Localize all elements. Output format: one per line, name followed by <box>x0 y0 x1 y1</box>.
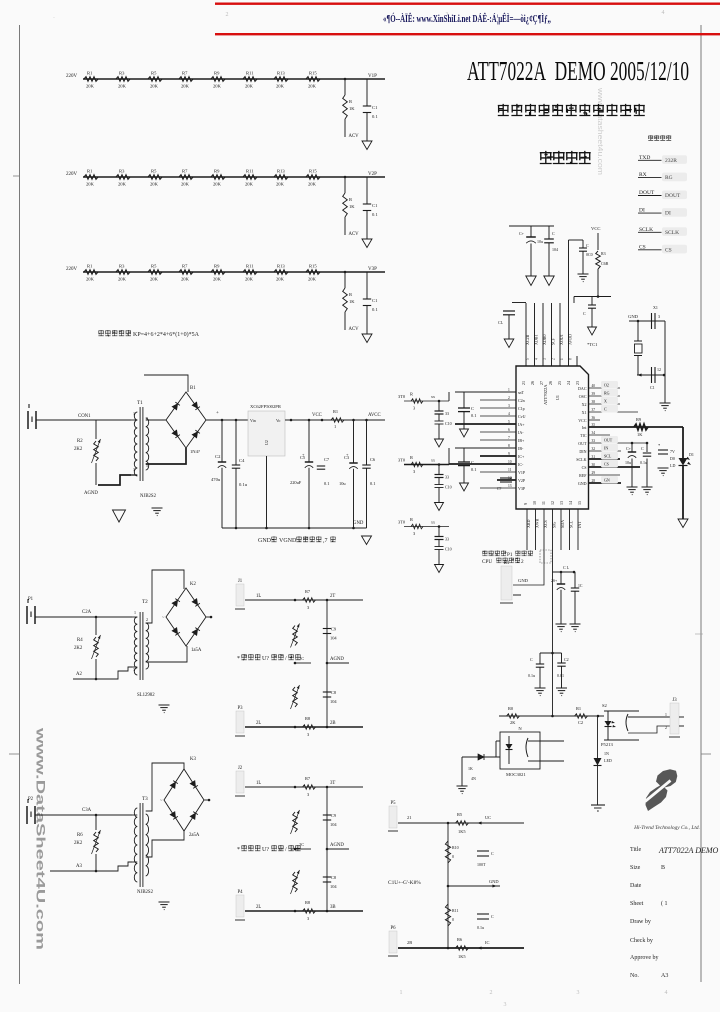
svg-text:3T0: 3T0 <box>398 520 406 525</box>
svg-text:0.1: 0.1 <box>324 481 330 486</box>
svg-text:ACV: ACV <box>349 134 360 139</box>
svg-text:7V: 7V <box>670 449 675 454</box>
svg-text:36: 36 <box>592 416 596 420</box>
svg-text:SCL: SCL <box>604 454 612 459</box>
svg-text:GND: GND <box>489 879 499 884</box>
svg-text:5: 5 <box>526 358 530 360</box>
svg-text:232R: 232R <box>665 158 677 164</box>
svg-text:C10: C10 <box>445 547 452 552</box>
svg-text:37: 37 <box>592 408 596 412</box>
svg-text:«¶Ó--ÀÏÊ: www.XinShiLi.net DÁÊ: «¶Ó--ÀÏÊ: www.XinShiLi.net DÁÊ-:Á¦µÊÌ=—ò… <box>383 12 551 25</box>
svg-text:R3: R3 <box>601 251 606 256</box>
svg-text:2a5A: 2a5A <box>189 833 200 838</box>
svg-text:C: C <box>471 460 474 465</box>
svg-text:R5: R5 <box>151 71 157 76</box>
svg-text:R5: R5 <box>151 169 157 174</box>
svg-text:K2: K2 <box>190 582 196 587</box>
svg-text:1N: 1N <box>604 751 609 756</box>
svg-text:0.1: 0.1 <box>471 413 477 418</box>
svg-text:20K: 20K <box>118 84 127 89</box>
svg-text:20K: 20K <box>181 84 190 89</box>
svg-text:20K: 20K <box>213 84 222 89</box>
svg-text:OUT: OUT <box>604 438 613 443</box>
svg-text:Title: Title <box>630 847 641 853</box>
svg-text:IA+: IA+ <box>518 422 525 427</box>
svg-text:C10: C10 <box>445 485 452 490</box>
svg-text:Date: Date <box>630 883 642 889</box>
svg-text:R11: R11 <box>452 908 459 913</box>
svg-text:C2: C2 <box>578 720 583 725</box>
svg-text:R13: R13 <box>277 169 285 174</box>
svg-text:RG: RG <box>665 175 673 181</box>
svg-text:R9: R9 <box>214 71 220 76</box>
svg-text:IC-: IC- <box>518 462 524 467</box>
svg-text:20K: 20K <box>86 84 95 89</box>
svg-text:3: 3 <box>133 467 135 472</box>
svg-text:3: 3 <box>658 314 660 319</box>
svg-text:32: 32 <box>592 447 596 451</box>
svg-text:C4: C4 <box>239 458 245 463</box>
svg-text:D1: D1 <box>689 452 694 457</box>
svg-text:Approve by: Approve by <box>630 955 659 961</box>
svg-text:3: 3 <box>577 990 580 996</box>
svg-text:4N: 4N <box>471 776 476 781</box>
svg-text:xx: xx <box>431 458 435 463</box>
svg-text:SCLK: SCLK <box>665 230 679 236</box>
svg-text:C7: C7 <box>324 457 330 462</box>
svg-text:26: 26 <box>530 381 535 385</box>
svg-text:P1: P1 <box>28 597 34 602</box>
svg-text:IC+: IC+ <box>518 454 525 459</box>
svg-text:2: 2 <box>508 396 510 400</box>
svg-text:0.1: 0.1 <box>372 114 378 119</box>
svg-text:20K: 20K <box>245 182 254 187</box>
svg-text:23: 23 <box>575 381 580 385</box>
svg-text:J2: J2 <box>238 766 243 771</box>
svg-text:X: X <box>604 399 607 404</box>
svg-text:21: 21 <box>521 381 526 385</box>
svg-text:C1p: C1p <box>518 406 525 411</box>
svg-text:C2n: C2n <box>518 398 525 403</box>
svg-text:R10: R10 <box>452 845 459 850</box>
svg-text:O2: O2 <box>604 383 609 388</box>
svg-text:C2: C2 <box>215 454 221 459</box>
svg-text:SCLK: SCLK <box>576 457 586 462</box>
svg-text:0.1u: 0.1u <box>528 673 535 678</box>
svg-text:AVDD: AVDD <box>568 334 573 345</box>
svg-text:1K: 1K <box>468 766 473 771</box>
svg-text:xx: xx <box>431 520 435 525</box>
svg-text:REF: REF <box>579 473 587 478</box>
svg-text:1: 1 <box>560 358 564 360</box>
svg-text:R5: R5 <box>151 264 157 269</box>
svg-text:No.: No. <box>630 973 639 979</box>
svg-text:C8: C8 <box>331 875 337 880</box>
svg-text:3: 3 <box>508 404 510 408</box>
svg-text:xx: xx <box>431 394 435 399</box>
svg-text:TXD: TXD <box>639 155 650 161</box>
svg-text:2S+: 2S+ <box>551 579 557 583</box>
svg-text:SIG: SIG <box>551 521 556 528</box>
svg-text:ACV: ACV <box>349 232 360 237</box>
svg-text:OUT: OUT <box>578 441 587 446</box>
svg-text:C10: C10 <box>445 421 452 426</box>
svg-text:V1P: V1P <box>518 470 526 475</box>
svg-text:XRD: XRD <box>526 519 531 528</box>
svg-text:C: C <box>491 914 494 919</box>
svg-text:A2: A2 <box>76 672 82 677</box>
svg-text:DOUT: DOUT <box>665 193 681 199</box>
svg-text:R7: R7 <box>182 71 188 76</box>
svg-text:1K5: 1K5 <box>458 829 466 834</box>
svg-text:XC2B: XC2B <box>525 334 530 345</box>
svg-text:0.1u: 0.1u <box>640 460 647 465</box>
svg-text:R1: R1 <box>87 71 93 76</box>
svg-text:V2P: V2P <box>518 478 526 483</box>
svg-text:C?: C? <box>497 486 502 491</box>
svg-text:C1U+-G'-K8%: C1U+-G'-K8% <box>388 880 421 886</box>
svg-text:6: 6 <box>508 428 510 432</box>
svg-text:20K: 20K <box>118 277 127 282</box>
svg-text:20K: 20K <box>276 277 285 282</box>
svg-text:3: 3 <box>133 667 135 672</box>
svg-text:C: C <box>552 231 555 236</box>
svg-text:XC62FP5002PR: XC62FP5002PR <box>250 404 282 409</box>
svg-text:U1: U1 <box>555 395 560 400</box>
svg-text:P2: P2 <box>28 797 34 802</box>
svg-text:9: 9 <box>523 503 528 505</box>
svg-text:GND: GND <box>518 578 529 583</box>
svg-text:39: 39 <box>592 392 596 396</box>
svg-text:20K: 20K <box>308 182 317 187</box>
svg-text:R3: R3 <box>119 169 125 174</box>
svg-text:4: 4 <box>535 358 539 360</box>
svg-text:4: 4 <box>508 412 510 416</box>
svg-text:C6B: C6B <box>601 261 609 266</box>
svg-text:C: C <box>491 851 494 856</box>
svg-text:snT: snT <box>518 390 525 395</box>
svg-text:0.1: 0.1 <box>370 481 376 486</box>
svg-text:2: 2 <box>226 12 229 18</box>
svg-text:VGND: VGND <box>279 538 297 544</box>
svg-text:0: 0 <box>452 917 454 922</box>
svg-text:R: R <box>410 392 413 397</box>
svg-text:20K: 20K <box>276 84 285 89</box>
svg-text:CS: CS <box>639 244 646 250</box>
svg-text:12: 12 <box>657 367 661 372</box>
svg-text:220uF: 220uF <box>290 480 302 485</box>
svg-text:104: 104 <box>552 247 558 252</box>
svg-text:P3: P3 <box>237 706 243 711</box>
svg-text:C6: C6 <box>370 457 376 462</box>
svg-text:P4: P4 <box>237 890 243 895</box>
svg-text:C+: C+ <box>519 231 525 236</box>
svg-text:NJB2S2: NJB2S2 <box>140 494 157 499</box>
svg-text:GND: GND <box>353 521 364 526</box>
svg-text:V2P: V2P <box>368 172 377 177</box>
svg-text:C+: C+ <box>626 446 632 451</box>
svg-text:1: 1 <box>665 713 667 717</box>
svg-text:20K: 20K <box>276 182 285 187</box>
svg-text:*TC1: *TC1 <box>587 342 598 347</box>
svg-text:1C: 1C <box>578 584 583 588</box>
svg-text:20K: 20K <box>181 277 190 282</box>
svg-text:C: C <box>471 406 474 411</box>
svg-text:GND: GND <box>628 314 639 319</box>
svg-text:220V: 220V <box>66 74 78 79</box>
svg-text:C: C <box>583 311 586 316</box>
svg-text:3T: 3T <box>330 781 335 786</box>
svg-text:S2: S2 <box>602 703 608 708</box>
svg-text:C8: C8 <box>331 690 337 695</box>
svg-text:J3: J3 <box>672 698 677 703</box>
svg-text:VCC: VCC <box>591 226 600 231</box>
svg-text:VCC: VCC <box>312 413 322 418</box>
svg-text:2B: 2B <box>330 721 336 726</box>
svg-text:0.1u: 0.1u <box>239 482 248 487</box>
svg-text:2: 2 <box>146 617 148 622</box>
svg-text:14: 14 <box>568 501 573 505</box>
svg-text:IB+: IB+ <box>518 438 525 443</box>
svg-text:DOUT: DOUT <box>639 190 655 196</box>
svg-text:T2: T2 <box>142 599 148 605</box>
svg-text:10: 10 <box>532 501 537 505</box>
svg-text:12: 12 <box>550 501 555 505</box>
svg-text:33: 33 <box>445 537 449 542</box>
svg-text:K3: K3 <box>190 757 196 762</box>
svg-text:0.1: 0.1 <box>471 467 477 472</box>
svg-text:20K: 20K <box>181 182 190 187</box>
svg-text:IC: IC <box>485 940 489 945</box>
svg-text:RX: RX <box>639 172 647 178</box>
svg-text:13: 13 <box>559 501 564 505</box>
svg-text:DIN: DIN <box>579 449 586 454</box>
svg-text:Hi-Trend Technology Co., Ltd.: Hi-Trend Technology Co., Ltd. <box>633 825 700 831</box>
svg-text:DAC: DAC <box>578 386 587 391</box>
svg-text:33: 33 <box>445 411 449 416</box>
svg-text:4: 4 <box>665 990 668 996</box>
svg-text:UC: UC <box>485 815 491 820</box>
svg-text:20K: 20K <box>245 84 254 89</box>
svg-text:R1: R1 <box>576 706 581 711</box>
svg-text:B1: B1 <box>504 561 510 566</box>
svg-text:100T: 100T <box>477 862 486 867</box>
svg-text:38: 38 <box>592 400 596 404</box>
svg-text:0C0: 0C0 <box>586 252 593 257</box>
svg-text:C1: C1 <box>372 105 378 110</box>
svg-text:IA-: IA- <box>518 430 524 435</box>
svg-text:CvU: CvU <box>518 414 526 419</box>
svg-text:35: 35 <box>592 423 596 427</box>
svg-text:8: 8 <box>569 358 573 360</box>
svg-text:R13: R13 <box>277 71 285 76</box>
svg-text:31: 31 <box>592 455 596 459</box>
svg-text:U?: U? <box>262 656 269 662</box>
svg-text:104: 104 <box>330 699 337 704</box>
svg-text:SDA: SDA <box>560 520 565 528</box>
svg-text:R11: R11 <box>246 71 254 76</box>
svg-text:20K: 20K <box>308 84 317 89</box>
svg-text:U?: U? <box>262 847 269 853</box>
svg-text:R5: R5 <box>457 812 463 817</box>
svg-text:C2: C2 <box>564 657 569 662</box>
svg-text:3B: 3B <box>330 905 336 910</box>
svg-text:104: 104 <box>330 884 337 889</box>
svg-text:R9: R9 <box>214 264 220 269</box>
svg-text:4: 4 <box>662 10 665 16</box>
svg-text:0.1u: 0.1u <box>477 925 484 930</box>
svg-text:20K: 20K <box>308 277 317 282</box>
svg-text:C: C <box>604 407 607 412</box>
svg-text:CL: CL <box>498 320 504 325</box>
svg-text:SL12982: SL12982 <box>137 693 155 698</box>
svg-text:0.01: 0.01 <box>557 673 564 678</box>
svg-text:3T0: 3T0 <box>398 458 406 463</box>
svg-text:R11: R11 <box>246 169 254 174</box>
svg-text:DI: DI <box>665 211 671 217</box>
svg-text:ACV: ACV <box>349 327 360 332</box>
svg-text:0: 0 <box>452 854 454 859</box>
svg-text:R13: R13 <box>277 264 285 269</box>
svg-text:20K: 20K <box>150 277 159 282</box>
svg-text:X2: X2 <box>582 402 587 407</box>
svg-text:Check by: Check by <box>630 938 653 944</box>
svg-text:T3: T3 <box>142 796 148 802</box>
svg-text:U2: U2 <box>264 440 269 445</box>
svg-text:2L: 2L <box>256 721 261 726</box>
svg-text:10u: 10u <box>537 239 543 244</box>
svg-text:( 1: ( 1 <box>661 900 668 907</box>
svg-text:R6: R6 <box>457 937 463 942</box>
svg-text:TIC: TIC <box>580 433 587 438</box>
svg-text:0.1: 0.1 <box>372 307 378 312</box>
svg-text:1: 1 <box>334 424 336 429</box>
svg-text:0.1: 0.1 <box>372 212 378 217</box>
svg-text:RG: RG <box>604 391 610 396</box>
svg-text:XDB0: XDB0 <box>542 335 547 345</box>
svg-text:R1: R1 <box>87 169 93 174</box>
svg-text:SCL: SCL <box>568 520 573 528</box>
svg-text:GND: GND <box>258 538 272 544</box>
svg-text:3: 3 <box>543 358 547 360</box>
svg-text:INT: INT <box>577 521 582 528</box>
svg-text:104: 104 <box>330 636 337 641</box>
svg-text:R7: R7 <box>305 776 311 781</box>
svg-text:R0: R0 <box>508 706 514 711</box>
svg-text:IN: IN <box>604 446 608 451</box>
svg-text:1L: 1L <box>256 781 261 786</box>
svg-text:P5: P5 <box>390 801 396 806</box>
svg-text:2C: 2C <box>299 842 304 847</box>
svg-text:1K: 1K <box>349 204 355 209</box>
svg-text:13: 13 <box>508 484 512 488</box>
svg-text:R8: R8 <box>305 716 311 721</box>
svg-text:R1: R1 <box>87 264 93 269</box>
svg-text:CS: CS <box>665 247 672 253</box>
svg-text:R9: R9 <box>636 417 642 422</box>
svg-text:25: 25 <box>557 381 562 385</box>
svg-text:15: 15 <box>577 501 582 505</box>
svg-text:R: R <box>410 517 413 522</box>
svg-text:P5213: P5213 <box>601 742 613 747</box>
svg-text:R11: R11 <box>246 264 254 269</box>
svg-text:220V: 220V <box>66 172 78 177</box>
svg-text:XCS: XCS <box>543 520 548 528</box>
svg-text:R: R <box>410 455 413 460</box>
svg-text:1N4?: 1N4? <box>190 449 200 454</box>
svg-text:104: 104 <box>330 822 337 827</box>
svg-text:3T0: 3T0 <box>398 394 406 399</box>
svg-text:R7: R7 <box>182 264 188 269</box>
svg-text:10u: 10u <box>339 481 346 486</box>
svg-text:20K: 20K <box>118 182 127 187</box>
svg-text:2K2: 2K2 <box>74 447 83 452</box>
svg-text:ATT7022A DEMO Mo: ATT7022A DEMO Mo <box>658 846 720 855</box>
svg-text:9: 9 <box>508 452 510 456</box>
svg-text:470u: 470u <box>211 477 221 482</box>
svg-text:1: 1 <box>134 610 136 615</box>
svg-text:20K: 20K <box>213 277 222 282</box>
svg-text:X1: X1 <box>582 410 587 415</box>
svg-text:C: C <box>641 446 644 451</box>
svg-text:R15: R15 <box>309 71 317 76</box>
svg-text:1: 1 <box>400 990 403 996</box>
svg-text:34: 34 <box>592 431 596 435</box>
svg-text:2: 2 <box>665 726 667 730</box>
svg-text:1L: 1L <box>256 594 261 599</box>
svg-text:R6: R6 <box>77 833 83 838</box>
svg-text:AGND: AGND <box>330 843 344 848</box>
svg-text:2: 2 <box>552 358 556 360</box>
svg-text:33: 33 <box>592 439 596 443</box>
svg-text:V1P: V1P <box>368 74 377 79</box>
svg-text:27: 27 <box>539 381 544 385</box>
svg-text:220V: 220V <box>66 267 78 272</box>
svg-text:2K2: 2K2 <box>74 841 83 846</box>
svg-text:XDB1: XDB1 <box>534 335 539 345</box>
svg-text:C9: C9 <box>331 813 337 818</box>
svg-text:1K: 1K <box>349 106 355 111</box>
svg-text:P6: P6 <box>390 926 396 931</box>
svg-text:CS: CS <box>604 462 609 467</box>
svg-text:R7: R7 <box>305 589 311 594</box>
svg-text:OSC: OSC <box>579 394 587 399</box>
svg-text:2K2: 2K2 <box>74 646 83 651</box>
svg-text:1a5A: 1a5A <box>191 648 202 653</box>
svg-text:R4: R4 <box>77 638 83 643</box>
svg-text:10: 10 <box>508 460 512 464</box>
svg-text:2: 2 <box>521 559 524 565</box>
svg-text:1K5: 1K5 <box>458 954 466 959</box>
svg-text:AVCC: AVCC <box>368 413 381 418</box>
svg-text:1: 1 <box>133 411 135 416</box>
svg-text:V3P: V3P <box>518 486 526 491</box>
svg-text:KP=4+6+2*4+6*(1+0)*5A: KP=4+6+2*4+6*(1+0)*5A <box>133 331 200 338</box>
svg-text:C L: C L <box>563 565 570 570</box>
svg-text:Size: Size <box>630 865 641 871</box>
svg-text:A3: A3 <box>661 973 668 979</box>
svg-text:28: 28 <box>592 479 596 483</box>
svg-text:J1: J1 <box>238 579 243 584</box>
svg-text:C1: C1 <box>372 203 378 208</box>
svg-text:21: 21 <box>407 815 411 820</box>
svg-text:Draw by: Draw by <box>630 919 651 925</box>
svg-text:D0: D0 <box>670 456 675 461</box>
svg-text:20K: 20K <box>86 277 95 282</box>
svg-text:R15: R15 <box>309 264 317 269</box>
svg-text:Sheet: Sheet <box>630 901 644 907</box>
svg-text:8: 8 <box>508 444 510 448</box>
